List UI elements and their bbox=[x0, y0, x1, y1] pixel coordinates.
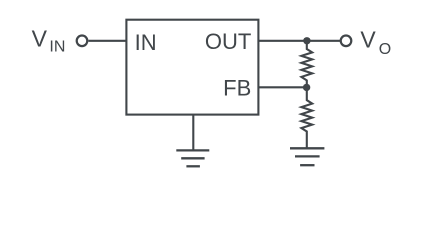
svg-text:FB: FB bbox=[223, 75, 251, 100]
svg-text:V: V bbox=[360, 27, 376, 53]
svg-text:V: V bbox=[32, 26, 48, 52]
svg-text:IN: IN bbox=[135, 30, 157, 55]
svg-text:O: O bbox=[379, 41, 391, 58]
svg-text:OUT: OUT bbox=[205, 29, 251, 54]
svg-text:IN: IN bbox=[49, 39, 65, 56]
